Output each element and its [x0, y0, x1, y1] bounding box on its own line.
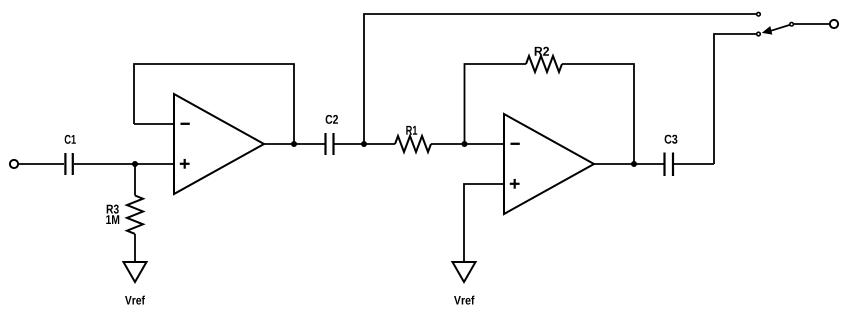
- op-amp U1: [174, 94, 264, 194]
- op-amp U1 plus sign: [180, 159, 190, 169]
- wire pivot to output terminal: [794, 23, 830, 25]
- wire R3 to Vref: [134, 234, 136, 262]
- switch arm: [771, 25, 790, 31]
- wire junction down to R3: [134, 164, 136, 196]
- op-amp U2: [504, 114, 594, 214]
- label C2: [326, 115, 338, 124]
- wire U2 output to C3: [594, 163, 664, 165]
- label Vref 1: [125, 296, 145, 305]
- wire R2 loop right leg: [562, 64, 634, 164]
- switch upper contact: [757, 12, 761, 16]
- node junction at top tap: [361, 141, 367, 147]
- node junction R2 tap: [462, 141, 468, 147]
- wire R2 loop left leg and top: [465, 64, 527, 144]
- capacitor C1: [65, 153, 72, 175]
- ground Vref 1: [124, 262, 147, 282]
- capacitor C2: [326, 133, 334, 155]
- input terminal: [10, 160, 18, 168]
- label C1: [65, 135, 76, 144]
- wire C1 to op-amp plus input: [74, 163, 174, 165]
- resistor R3: [127, 196, 143, 234]
- capacitor C3: [665, 153, 674, 177]
- resistor R2: [526, 56, 562, 72]
- node junction U2 output / R2: [631, 161, 637, 167]
- output terminal: [830, 20, 838, 28]
- label R2: [535, 47, 549, 56]
- switch pivot contact: [790, 22, 794, 26]
- wire R1 to op-amp U2 minus: [431, 143, 504, 145]
- switch arm arrowhead: [762, 26, 773, 35]
- label R1: [406, 126, 417, 135]
- wire C3 to riser: [673, 163, 714, 165]
- label 1M: [106, 215, 119, 224]
- label Vref 2: [454, 296, 475, 305]
- wire U1 feedback loop: [134, 64, 294, 144]
- op-amp U2 plus sign: [510, 179, 520, 189]
- wire U1 output to C2: [264, 143, 325, 145]
- wire input to C1: [19, 163, 65, 165]
- resistor R1: [395, 136, 431, 152]
- node junction U1 output / feedback: [291, 141, 297, 147]
- node junction at R3 tap: [132, 161, 138, 167]
- wire U2 plus input: [464, 184, 504, 262]
- switch lower contact: [757, 32, 761, 36]
- wire riser to top rail: [364, 14, 756, 144]
- op-amp U2 minus sign: [511, 143, 520, 145]
- wire C2 to R1: [334, 143, 395, 145]
- label R3: [107, 205, 119, 214]
- wire minus input stub: [134, 123, 174, 125]
- op-amp U1 minus sign: [181, 123, 190, 125]
- wire riser to switch lower contact: [714, 34, 756, 164]
- ground Vref 2: [453, 262, 476, 282]
- label C3: [665, 135, 678, 144]
